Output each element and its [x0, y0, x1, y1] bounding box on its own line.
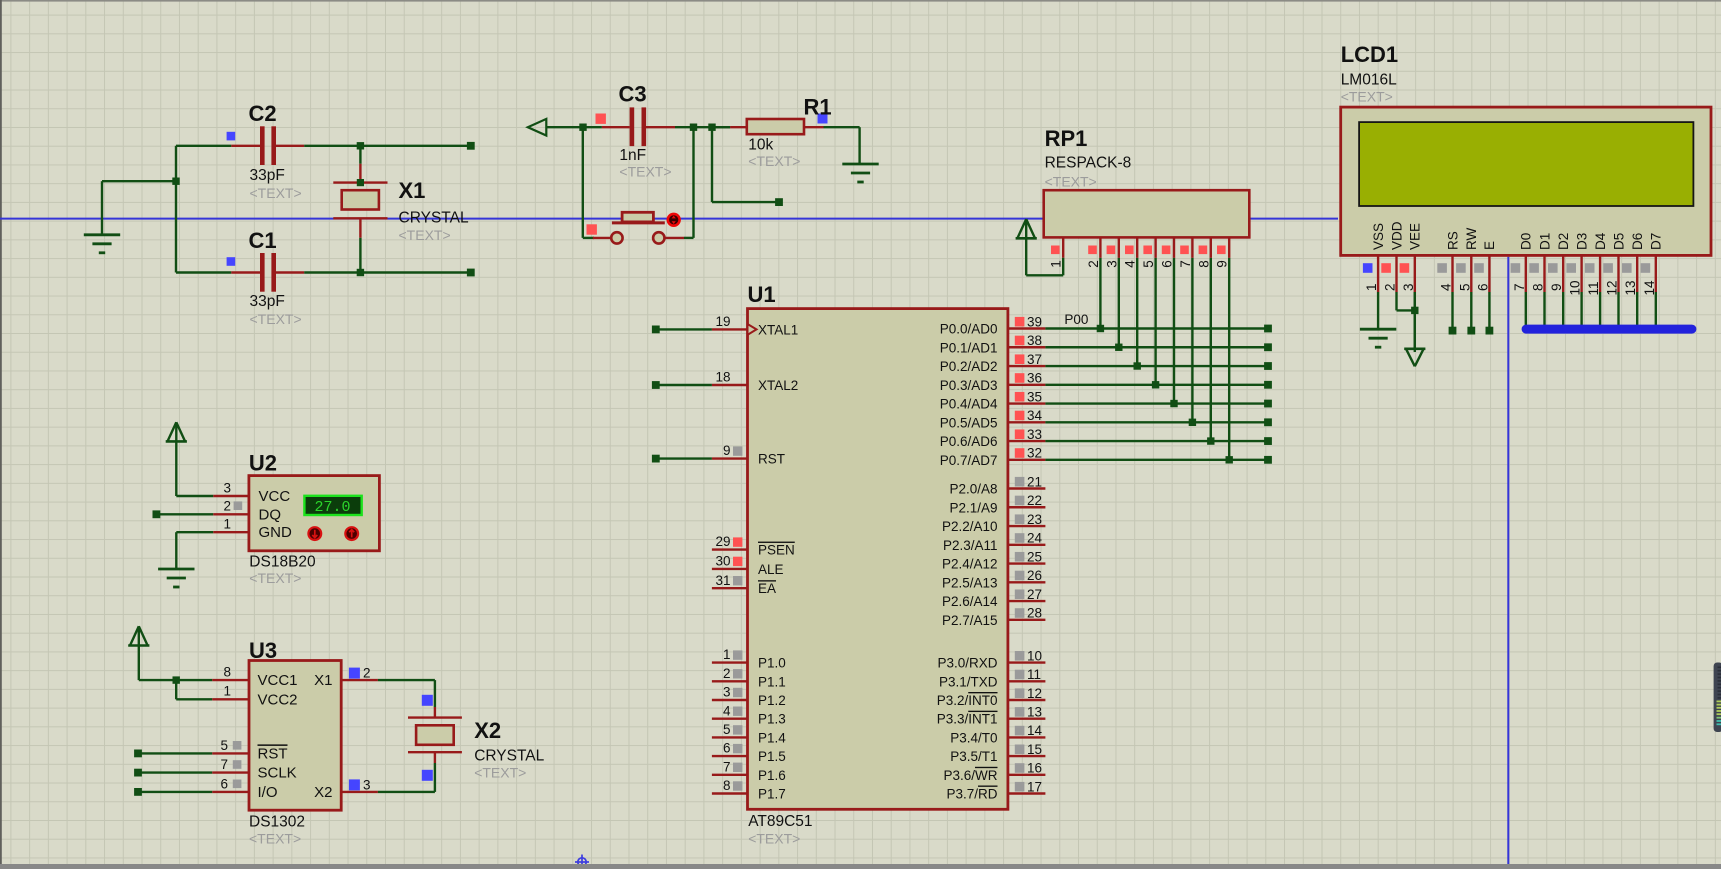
RP1 pin 1 stub	[1049, 237, 1064, 267]
wire U3 VCC1 to power	[139, 626, 213, 680]
wire U3 I/O	[134, 788, 212, 796]
sensor U2 body DS18B20	[249, 476, 380, 551]
junction P0.1/RP1	[1115, 344, 1122, 351]
svg-text:P0.7/AD7: P0.7/AD7	[940, 453, 998, 468]
pin 23 P2.2/A10	[942, 512, 1045, 534]
wire RP1 pin 4 vertical	[1136, 258, 1138, 366]
LCD pin 7 D0	[1511, 233, 1534, 292]
svg-text:<TEXT>: <TEXT>	[1045, 174, 1097, 190]
ground (U2)	[158, 569, 194, 587]
svg-text:P1.3: P1.3	[758, 712, 786, 727]
text placeholder U1	[748, 831, 800, 847]
wire P0.4 row	[1045, 402, 1268, 404]
text placeholder C1	[250, 311, 302, 327]
wire end node (dangling)	[775, 198, 783, 206]
svg-text:ALE: ALE	[758, 562, 784, 577]
svg-text:P1.7: P1.7	[758, 787, 786, 802]
svg-text:8: 8	[1196, 260, 1211, 268]
value DS18B20	[249, 554, 316, 571]
wire U2 GND to ground	[176, 532, 213, 569]
wire: button left drop	[583, 127, 594, 238]
pin 8 P1.7	[712, 778, 786, 801]
crystal X1	[333, 146, 387, 273]
pin 32 P0.7/AD7	[940, 446, 1046, 468]
svg-text:VEE: VEE	[1408, 223, 1423, 250]
pin 13 P3.3/INT1	[937, 705, 1046, 727]
blue handle C2	[227, 132, 236, 141]
pin 2 P1.1	[712, 666, 786, 689]
svg-text:RST: RST	[258, 745, 288, 762]
pin 26 P2.5/A13	[942, 568, 1045, 590]
wire: dangling stub below node B2	[712, 127, 779, 202]
wire C1 left	[176, 271, 231, 273]
svg-text:D6: D6	[1630, 233, 1645, 250]
wire LCD D6 to bus	[1636, 292, 1638, 326]
label U3	[249, 638, 277, 663]
wire P0.3 row	[1045, 384, 1268, 386]
wire X2 pin to crystal X2 bottom	[378, 752, 435, 792]
wire LCD D3 to bus	[1580, 292, 1582, 326]
wire P0.1 row	[1045, 346, 1268, 348]
wire U3 VCC2 branch	[176, 680, 212, 699]
junction P0.6/RP1	[1207, 437, 1214, 444]
capacitor C3	[583, 107, 675, 146]
pin 22 P2.1/A9	[949, 493, 1045, 515]
ground (LCD)	[1360, 329, 1396, 347]
svg-text:C3: C3	[619, 82, 647, 107]
svg-text:3: 3	[1401, 283, 1416, 291]
svg-text:EA: EA	[758, 581, 776, 596]
svg-text:37: 37	[1027, 352, 1042, 367]
svg-text:P3.2/INT0: P3.2/INT0	[937, 693, 998, 708]
svg-text:38: 38	[1027, 333, 1042, 348]
svg-text:P1.6: P1.6	[758, 768, 786, 783]
svg-text:1: 1	[1049, 260, 1064, 268]
capacitor C2	[231, 126, 304, 165]
svg-text:12: 12	[1027, 686, 1042, 701]
svg-text:<TEXT>: <TEXT>	[619, 164, 671, 180]
svg-text:P0.2/AD2: P0.2/AD2	[940, 359, 998, 374]
wire RP1 pin 6 vertical	[1173, 258, 1175, 404]
svg-text:I/O: I/O	[258, 784, 278, 801]
wire LCD VEE down	[1414, 292, 1416, 349]
U2 pin 3 VCC	[213, 480, 290, 505]
wire end node P0.7	[1264, 456, 1272, 464]
wire: ground branch	[102, 181, 176, 234]
svg-text:P3.4/T0: P3.4/T0	[950, 730, 997, 745]
U3 pin 7 SCLK	[212, 757, 296, 782]
ground (top-left)	[84, 235, 120, 253]
svg-text:XTAL2: XTAL2	[758, 378, 798, 393]
svg-text:23: 23	[1027, 512, 1042, 527]
svg-text:1: 1	[723, 647, 731, 662]
svg-text:8: 8	[223, 665, 231, 680]
pin 30 ALE	[712, 554, 784, 577]
U3 pin 2 X1	[314, 666, 378, 690]
wire LCD RW stub	[1467, 292, 1475, 335]
svg-text:U2: U2	[249, 451, 277, 476]
svg-text:RESPACK-8: RESPACK-8	[1045, 155, 1132, 172]
svg-text:21: 21	[1027, 474, 1042, 489]
svg-text:1: 1	[223, 684, 231, 699]
svg-text:D3: D3	[1574, 233, 1589, 250]
junction P0.3/RP1	[1152, 381, 1159, 388]
svg-text:P2.2/A10: P2.2/A10	[942, 519, 998, 534]
svg-text:2: 2	[723, 666, 731, 681]
text placeholder LCD1	[1341, 89, 1393, 105]
pin 18 XTAL2	[652, 370, 798, 393]
value 33pF (C2)	[250, 167, 285, 184]
wire LCD E stub	[1486, 292, 1494, 335]
wire end node P0.4	[1264, 400, 1272, 408]
svg-text:SCLK: SCLK	[258, 765, 297, 782]
svg-text:P1.1: P1.1	[758, 674, 786, 689]
wire RP1 pin 9 vertical	[1228, 258, 1230, 460]
svg-text:33pF: 33pF	[250, 293, 285, 310]
junction X1 bottom	[357, 269, 364, 276]
pin 36 P0.3/AD3	[940, 371, 1046, 393]
svg-text:DS18B20: DS18B20	[249, 554, 316, 571]
LCD screen	[1359, 122, 1693, 206]
svg-text:2: 2	[363, 666, 371, 681]
svg-text:29: 29	[715, 534, 730, 549]
svg-text:12: 12	[1605, 280, 1620, 295]
origin marker (blue crosshair)	[575, 855, 589, 867]
value AT89C51	[748, 813, 812, 830]
window edge left	[0, 0, 2, 864]
svg-text:D4: D4	[1593, 232, 1608, 250]
svg-text:RST: RST	[758, 452, 785, 467]
value CRYSTAL (X2)	[474, 748, 544, 765]
RP1 pin 7 stub	[1178, 237, 1193, 267]
pin 39 P0.0/AD0	[940, 314, 1046, 336]
svg-text:22: 22	[1027, 493, 1042, 508]
svg-text:4: 4	[723, 703, 731, 718]
U2 button up	[345, 527, 358, 540]
LCD pin 11 D4	[1585, 232, 1608, 295]
svg-text:XTAL1: XTAL1	[758, 322, 798, 337]
pin 38 P0.1/AD1	[940, 333, 1046, 355]
svg-text:4: 4	[1439, 283, 1454, 291]
junction node B1	[690, 124, 697, 131]
svg-text:E: E	[1482, 241, 1497, 250]
svg-text:35: 35	[1027, 389, 1042, 404]
pin 4 P1.3	[712, 703, 786, 726]
wire P0.6 row	[1045, 440, 1268, 442]
pin 34 P0.5/AD5	[940, 408, 1046, 430]
svg-text:X1: X1	[314, 672, 332, 689]
wire P0.7 row	[1045, 459, 1268, 461]
pin 31 EA	[712, 573, 776, 596]
wire: button right drop	[684, 127, 694, 238]
right edge panel sliver	[1714, 663, 1721, 733]
svg-text:R1: R1	[804, 95, 832, 120]
pin 11 P3.1/TXD	[939, 667, 1045, 689]
svg-text:CRYSTAL: CRYSTAL	[399, 210, 469, 227]
U2 button down	[308, 527, 321, 540]
svg-text:DS1302: DS1302	[249, 814, 305, 831]
wire RP1 pin 8 vertical	[1210, 258, 1212, 441]
junction VCC1/VCC2	[173, 676, 180, 683]
power down-arrow (VEE)	[1404, 292, 1425, 366]
svg-text:18: 18	[715, 370, 730, 385]
svg-text:34: 34	[1027, 408, 1043, 423]
label R1	[804, 95, 832, 120]
data bus bar	[1522, 325, 1697, 334]
pin 10 P3.0/RXD	[937, 648, 1045, 670]
svg-text:D1: D1	[1537, 233, 1552, 250]
red handle C3	[596, 114, 606, 124]
pin 15 P3.5/T1	[950, 742, 1045, 764]
label U2	[249, 451, 277, 476]
LCD pin 3 VEE	[1400, 223, 1423, 292]
U2 pin 2 DQ	[213, 499, 281, 524]
LCD pin 1 VSS	[1363, 223, 1386, 292]
svg-text:6: 6	[723, 741, 731, 756]
svg-text:P2.5/A13: P2.5/A13	[942, 575, 998, 590]
svg-text:CRYSTAL: CRYSTAL	[474, 748, 544, 765]
pin 17 P3.7/RD	[946, 779, 1045, 801]
pin 24 P2.3/A11	[943, 531, 1045, 553]
label LCD1	[1341, 42, 1398, 67]
pin 35 P0.4/AD4	[940, 389, 1046, 411]
svg-text:33: 33	[1027, 427, 1042, 442]
svg-text:RW: RW	[1464, 227, 1479, 250]
svg-text:VCC2: VCC2	[258, 691, 298, 708]
svg-text:P2.3/A11: P2.3/A11	[943, 538, 998, 553]
net label P00	[1064, 312, 1088, 327]
svg-text:X1: X1	[399, 178, 426, 203]
value 33pF (C1)	[250, 293, 285, 310]
svg-text:19: 19	[715, 314, 730, 329]
input terminal arrow (left)	[528, 119, 564, 136]
wire P0.5 row	[1045, 421, 1268, 423]
svg-text:31: 31	[715, 573, 730, 588]
value RESPACK-8	[1045, 155, 1132, 172]
svg-text:30: 30	[715, 554, 730, 569]
U3 pin 6 I/O	[212, 776, 277, 801]
svg-text:5: 5	[220, 738, 228, 753]
label U1	[748, 282, 776, 307]
label C2	[249, 101, 277, 126]
wire P0.0 row	[1045, 327, 1268, 329]
junction node B2	[708, 124, 715, 131]
wire RP1 pin1 to power	[1026, 258, 1063, 276]
wire end node P0.0	[1264, 325, 1272, 333]
svg-text:<TEXT>: <TEXT>	[748, 153, 800, 169]
svg-text:P0.5/AD5: P0.5/AD5	[940, 415, 998, 430]
label C3	[619, 82, 647, 107]
svg-text:14: 14	[1027, 723, 1043, 738]
text placeholder RP1	[1045, 174, 1097, 190]
wire LCD D0 to bus	[1525, 292, 1527, 326]
wire U3 RST	[134, 750, 212, 758]
U3 pin 1 VCC2	[212, 684, 297, 709]
svg-text:5: 5	[1457, 283, 1472, 291]
svg-text:10k: 10k	[748, 137, 773, 154]
svg-text:P3.0/RXD: P3.0/RXD	[937, 656, 997, 671]
pin 25 P2.4/A12	[942, 549, 1045, 571]
pin 21 P2.0/A8	[949, 474, 1045, 496]
blue handle X2 top	[422, 695, 433, 706]
svg-text:P2.0/A8: P2.0/A8	[949, 482, 997, 497]
svg-text:17: 17	[1027, 779, 1042, 794]
LCD pin 14 D7	[1641, 233, 1664, 296]
wire RP1 pin 5 vertical	[1154, 258, 1156, 385]
RP1 pin 5 stub	[1141, 237, 1156, 267]
svg-text:LCD1: LCD1	[1341, 42, 1398, 67]
red handle button	[587, 224, 597, 234]
text placeholder U2	[249, 570, 301, 586]
junction node A	[579, 124, 586, 131]
svg-text:5: 5	[723, 722, 731, 737]
label C1	[249, 228, 277, 253]
svg-text:3: 3	[1104, 260, 1119, 268]
svg-text:2: 2	[1383, 283, 1398, 291]
svg-text:<TEXT>: <TEXT>	[250, 185, 302, 201]
svg-text:24: 24	[1027, 531, 1043, 546]
wire RP1 pin 7 vertical	[1191, 258, 1193, 423]
svg-text:P1.0: P1.0	[758, 656, 786, 671]
pin 27 P2.6/A14	[942, 587, 1045, 609]
U2 pin 1 GND	[213, 517, 292, 542]
wire LCD D5 to bus	[1617, 292, 1619, 326]
junction P0.2/RP1	[1134, 362, 1141, 369]
svg-text:PSEN: PSEN	[758, 543, 795, 558]
U3 pin 3 X2	[314, 777, 378, 801]
vertical blue guide line	[1507, 257, 1509, 864]
value CRYSTAL (X1)	[399, 210, 469, 227]
svg-text:VCC: VCC	[259, 488, 291, 505]
svg-text:VDD: VDD	[1389, 221, 1404, 250]
RP1 pin 9 stub	[1215, 237, 1230, 267]
text placeholder U3	[249, 831, 301, 847]
wire: left vertical net C2-C1	[175, 146, 177, 273]
svg-text:AT89C51: AT89C51	[748, 813, 812, 830]
svg-text:7: 7	[1512, 283, 1527, 291]
svg-text:15: 15	[1027, 742, 1042, 757]
svg-text:32: 32	[1027, 446, 1042, 461]
svg-text:6: 6	[220, 776, 228, 791]
svg-text:10: 10	[1027, 648, 1042, 663]
pin 5 P1.4	[712, 722, 786, 745]
label X2	[474, 718, 501, 743]
svg-text:5: 5	[1141, 260, 1156, 268]
svg-text:LM016L: LM016L	[1341, 72, 1397, 89]
LCD pin 9 D2	[1548, 233, 1571, 292]
svg-text:<TEXT>: <TEXT>	[249, 831, 301, 847]
U3 pin 8 VCC1	[212, 665, 297, 690]
svg-text:6: 6	[1475, 283, 1490, 291]
svg-text:P0.4/AD4: P0.4/AD4	[940, 397, 998, 412]
wire end node P0.2	[1264, 362, 1272, 370]
svg-text:1: 1	[223, 517, 231, 532]
svg-text:26: 26	[1027, 568, 1042, 583]
pin 7 P1.6	[712, 759, 786, 782]
svg-text:33pF: 33pF	[250, 167, 285, 184]
RP1 pin 3 stub	[1104, 237, 1119, 267]
pin 6 P1.5	[712, 741, 786, 764]
svg-text:P1.2: P1.2	[758, 693, 786, 708]
svg-text:D5: D5	[1611, 233, 1626, 250]
wire end node P0.3	[1264, 381, 1272, 389]
LCD pin 2 VDD	[1381, 221, 1404, 292]
svg-text:9: 9	[1215, 260, 1230, 268]
pin 16 P3.6/WR	[943, 761, 1045, 783]
svg-text:P2.1/A9: P2.1/A9	[949, 500, 997, 515]
LCD pin 6 E	[1474, 241, 1497, 292]
svg-text:P0.3/AD3: P0.3/AD3	[940, 378, 998, 393]
ground (R1)	[842, 164, 878, 182]
wire U3 SCLK	[134, 769, 212, 777]
svg-text:<TEXT>: <TEXT>	[249, 570, 301, 586]
horizontal blue guide line	[0, 218, 1338, 220]
U2 temperature display	[304, 496, 361, 516]
text placeholder C3	[619, 164, 671, 180]
value DS1302	[249, 814, 305, 831]
svg-text:<TEXT>: <TEXT>	[399, 227, 451, 243]
svg-text:P2.4/A12: P2.4/A12	[942, 557, 998, 572]
wire C2 left	[176, 145, 231, 147]
svg-text:7: 7	[1178, 260, 1193, 268]
power arrow (U2)	[166, 422, 187, 441]
svg-text:P3.7/RD: P3.7/RD	[946, 787, 997, 802]
svg-text:P2.7/A15: P2.7/A15	[942, 613, 998, 628]
pin 9 RST	[652, 443, 785, 466]
svg-text:D2: D2	[1556, 233, 1571, 250]
junction P0.0/RP1	[1097, 325, 1104, 332]
blue handle C1	[227, 257, 236, 266]
value 10k	[748, 137, 773, 154]
junction X1 top	[357, 142, 364, 149]
svg-text:VCC1: VCC1	[258, 672, 298, 689]
svg-text:P2.6/A14: P2.6/A14	[942, 594, 998, 609]
blue handle R1	[818, 114, 828, 124]
svg-text:1: 1	[1364, 283, 1379, 291]
svg-text:3: 3	[723, 685, 731, 700]
wire C3 right to node B	[675, 126, 730, 128]
text placeholder C2	[250, 185, 302, 201]
wire LCD VDD jog	[1397, 292, 1415, 310]
wire end node (top)	[467, 142, 475, 150]
pin 37 P0.2/AD2	[940, 352, 1046, 374]
wire LCD D4 to bus	[1599, 292, 1601, 326]
svg-text:C2: C2	[249, 101, 277, 126]
LCD pin 10 D3	[1566, 233, 1589, 296]
svg-text:36: 36	[1027, 371, 1042, 386]
svg-text:P3.5/T1: P3.5/T1	[950, 749, 997, 764]
wire C2 right to node	[304, 145, 471, 147]
wire P0.2 row	[1045, 365, 1268, 367]
wire RP1 pin 2 vertical	[1099, 258, 1101, 329]
svg-text:D0: D0	[1519, 233, 1534, 250]
svg-text:U1: U1	[748, 282, 776, 307]
RP1 pin 8 stub	[1196, 237, 1211, 267]
svg-text:27.0: 27.0	[314, 499, 350, 516]
svg-text:28: 28	[1027, 606, 1042, 621]
button actuator (red)	[668, 214, 680, 226]
svg-text:DQ: DQ	[259, 506, 282, 523]
svg-text:10: 10	[1568, 280, 1583, 295]
wire LCD VSS to ground	[1377, 292, 1379, 329]
pin 14 P3.4/T0	[950, 723, 1045, 745]
svg-text:GND: GND	[259, 524, 293, 541]
svg-text:2: 2	[1086, 260, 1101, 268]
junction P0.7/RP1	[1226, 456, 1233, 463]
svg-text:11: 11	[1027, 667, 1041, 682]
wire end node P0.6	[1264, 437, 1272, 445]
rtc U3 body DS1302	[249, 661, 341, 811]
